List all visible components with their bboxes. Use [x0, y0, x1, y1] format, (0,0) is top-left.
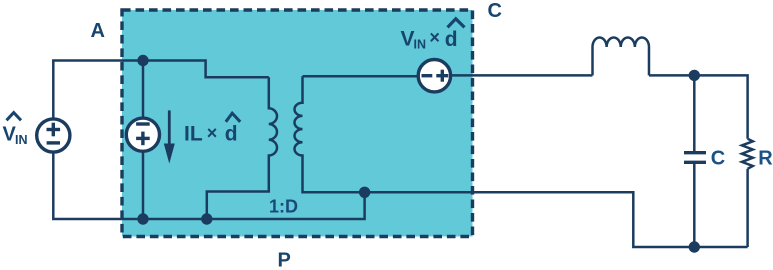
capacitor C bottom lead: [693, 164, 696, 247]
inductor L: [593, 38, 649, 76]
svg-text:P: P: [278, 250, 291, 270]
label V_IN hat (left): [3, 113, 28, 147]
node junction dot (bottom bus / current source): [137, 213, 148, 224]
capacitor C plates: [684, 153, 706, 163]
node junction dot (bottom bus / primary return): [201, 213, 212, 224]
transformer T1 secondary winding: [295, 76, 365, 192]
label V_IN x d-hat (top): [401, 19, 465, 52]
node junction dot (inductor / capacitor top): [689, 70, 700, 81]
controlled source U1 (V_IN x d-hat), minus left plus right: [418, 59, 450, 91]
node junction dot (top rail / current source): [137, 55, 148, 66]
wire: secondary top rail to controlled source: [303, 75, 419, 78]
svg-text:C: C: [488, 0, 502, 22]
arrow: current direction down: [164, 110, 175, 163]
resistor R zigzag: [742, 139, 753, 169]
svg-text:V: V: [401, 28, 415, 51]
svg-text:×: ×: [207, 123, 218, 143]
svg-text:IL: IL: [184, 122, 203, 145]
svg-text:×: ×: [429, 28, 440, 48]
svg-text:IN: IN: [15, 133, 28, 147]
capacitor C branch: top lead: [693, 75, 696, 151]
svg-text:A: A: [91, 20, 105, 42]
node junction dot (secondary bottom node): [359, 187, 370, 198]
svg-text:C: C: [711, 147, 725, 169]
svg-text:IN: IN: [414, 38, 427, 52]
svg-text:1:D: 1:D: [269, 197, 298, 217]
wire: bottom return from node to R branch: [365, 192, 748, 247]
wire: left loop bottom bus and riser to node: [53, 152, 364, 219]
svg-text:d: d: [445, 28, 458, 51]
wire: current source branch top: [142, 61, 145, 119]
wire: inductor to R branch, top right rail: [649, 75, 748, 138]
svg-text:d: d: [225, 123, 238, 146]
wire: left loop top rail with step: [53, 61, 268, 120]
svg-text:R: R: [758, 147, 773, 169]
transformer T1 primary winding: [207, 77, 277, 219]
independent source V_IN (left), plus top minus bottom: [37, 119, 70, 152]
resistor R bottom lead: [746, 169, 749, 247]
label IL x d-hat: [184, 113, 240, 145]
dashed box P (canonical cell): [122, 10, 473, 237]
current source U2 (IL x d-hat), minus top plus bottom: [126, 118, 159, 151]
wire: current source branch bottom: [142, 151, 145, 219]
wire: controlled source to inductor: [451, 74, 593, 77]
node junction dot (capacitor bottom): [689, 241, 700, 252]
